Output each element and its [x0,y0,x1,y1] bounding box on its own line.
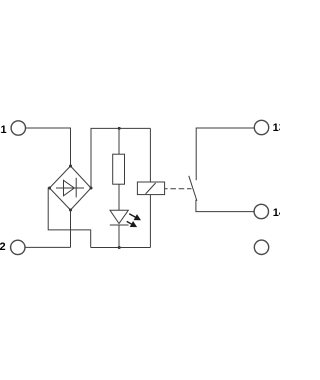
relay coil K1 [137,182,164,195]
node bridge top [69,165,72,168]
relay coil diagonal [146,183,156,194]
diode cathode bar [75,178,77,198]
wire A2 rail [25,246,71,248]
wire resistor to LED [118,184,120,210]
node bridge bottom [69,209,72,212]
dashed actuator link [165,188,192,190]
wire bridge bottom to A2 rail [70,210,72,247]
bridge rectifier D1 diamond [50,166,92,210]
svg-text:A2: A2 [0,241,6,253]
node bottom rail junction [118,246,121,249]
terminal A2 [11,240,25,254]
wire bridge right to top rail [91,128,150,188]
terminal spare [254,240,268,254]
node bridge left [48,187,51,190]
wire top rail to resistor [118,128,120,154]
LED arrow 2 [127,221,137,227]
resistor R1 [113,154,125,184]
svg-text:A1: A1 [0,124,7,136]
wire switch to terminal 14 [196,200,254,212]
terminal A1 [11,121,25,135]
wire bridge left to bottom rail [48,188,90,248]
terminal 14 [254,204,268,218]
diode triangle [64,180,75,196]
wire relay coil to bottom rail [149,195,151,248]
node bridge right [90,187,93,190]
LED cathode bar [110,224,129,226]
wire LED to bottom rail [118,225,120,248]
svg-text:14: 14 [273,207,280,219]
switch blade [189,176,197,201]
LED triangle [110,210,128,223]
svg-text:13: 13 [273,122,280,134]
wire top rail to relay coil [149,128,151,182]
wire bottom rail [91,247,151,249]
LED arrow 1 [129,214,141,221]
wire switch fixed contact from terminal 13 [196,128,254,180]
wire A1 to bridge top [26,128,71,166]
node top rail junction [118,127,121,130]
terminal 13 [254,120,268,134]
diode inside bridge: anode line [56,187,84,189]
